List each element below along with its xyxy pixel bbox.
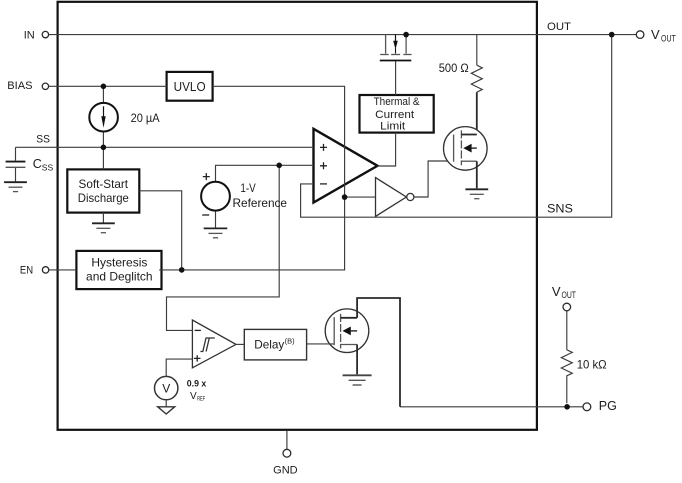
svg-text:Delay: Delay — [254, 337, 284, 351]
svg-text:20 µA: 20 µA — [131, 111, 160, 125]
svg-text:V: V — [190, 391, 197, 402]
svg-text:Soft-Start: Soft-Start — [79, 177, 129, 191]
svg-text:GND: GND — [273, 465, 298, 477]
svg-text:V: V — [552, 284, 561, 299]
svg-text:and Deglitch: and Deglitch — [86, 270, 153, 284]
svg-text:BIAS: BIAS — [7, 80, 32, 92]
svg-text:SNS: SNS — [547, 203, 573, 215]
svg-text:V: V — [162, 382, 170, 396]
svg-text:V: V — [651, 27, 660, 42]
svg-text:OUT: OUT — [547, 21, 571, 33]
svg-text:0.9 x: 0.9 x — [187, 378, 207, 389]
svg-text:SS: SS — [36, 134, 50, 146]
svg-text:Hysteresis: Hysteresis — [91, 256, 147, 270]
svg-text:IN: IN — [24, 30, 35, 42]
svg-text:Limit: Limit — [380, 121, 405, 133]
svg-text:Discharge: Discharge — [78, 191, 129, 205]
svg-text:UVLO: UVLO — [174, 80, 206, 94]
svg-text:Current: Current — [375, 109, 414, 121]
svg-text:EN: EN — [20, 265, 33, 277]
svg-text:10 kΩ: 10 kΩ — [577, 357, 607, 371]
svg-text:SS: SS — [42, 162, 54, 172]
svg-text:OUT: OUT — [661, 33, 676, 43]
svg-text:1-V: 1-V — [240, 181, 255, 195]
svg-text:500 Ω: 500 Ω — [439, 63, 469, 75]
svg-text:Thermal &: Thermal & — [374, 96, 421, 108]
svg-text:Reference: Reference — [233, 196, 288, 210]
svg-text:C: C — [33, 157, 42, 171]
svg-text:REF: REF — [197, 396, 205, 403]
svg-text:(B): (B) — [285, 337, 296, 346]
svg-text:PG: PG — [599, 399, 617, 413]
svg-text:OUT: OUT — [562, 290, 577, 300]
